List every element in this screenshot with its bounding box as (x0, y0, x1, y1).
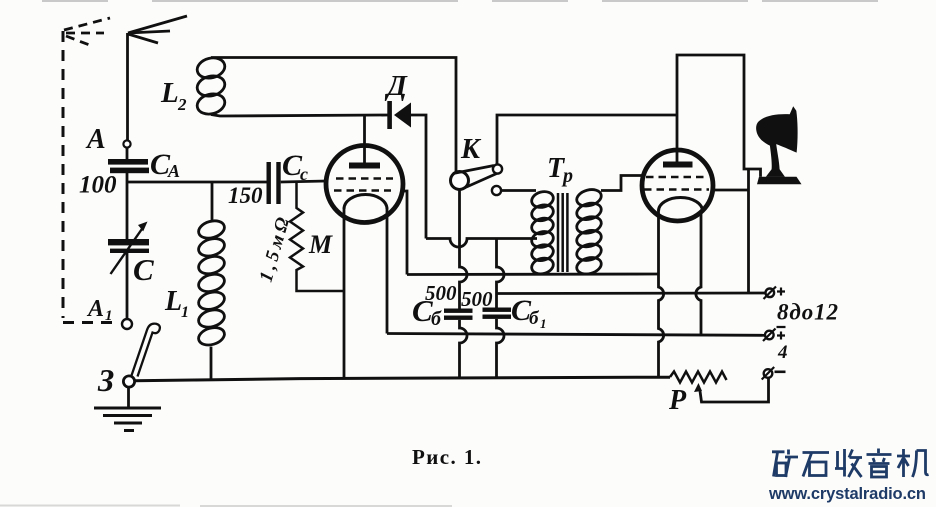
svg-text:Д: Д (384, 70, 408, 102)
U1 filament legs (343, 209, 346, 379)
capacitor CA (108, 159, 149, 173)
svg-text:С: С (412, 293, 433, 328)
wire CA to C (variable) (126, 182, 129, 239)
svg-text:1: 1 (105, 308, 113, 324)
diode D (387, 101, 392, 129)
terminal +4 (765, 331, 774, 340)
svg-text:р: р (561, 165, 573, 187)
svg-text:б: б (431, 308, 442, 330)
coil L1 (197, 182, 227, 380)
capacitor Cb (444, 309, 473, 320)
wire tuned circuit to grid (127, 181, 267, 184)
U2 filament legs (659, 211, 664, 377)
terminal +8..12 (766, 289, 775, 298)
svg-text:М: М (308, 230, 333, 259)
wire U2 right to speaker (713, 189, 749, 192)
rail 293 to terminal (497, 292, 766, 295)
wire detector to transformer tap (with hop) (426, 239, 537, 248)
svg-text:4: 4 (777, 342, 788, 363)
char yin (867, 449, 892, 464)
coil L2 (195, 55, 456, 171)
svg-text:L: L (164, 286, 182, 317)
svg-text:Рис. 1.: Рис. 1. (412, 445, 481, 469)
resistor M (grid leak) (290, 182, 344, 291)
scan artifacts bottom edge (0, 505, 452, 507)
triode U2 (642, 150, 713, 221)
transformer Tr primary (530, 189, 555, 276)
rheostat wiper to terminal minus (700, 378, 769, 402)
rheostat P (670, 372, 727, 383)
transformer core (558, 193, 567, 272)
char kuang (772, 450, 798, 478)
svg-text:А: А (85, 124, 106, 155)
terminal minus (764, 369, 773, 378)
watermark logo (vector CJK) (772, 449, 929, 478)
capacitor Cb1 (483, 308, 512, 319)
svg-text:1: 1 (540, 316, 547, 331)
capacitor CC (267, 162, 281, 204)
svg-text:500: 500 (461, 287, 493, 311)
char ji (897, 449, 929, 477)
svg-text:www.crystalradio.cn: www.crystalradio.cn (768, 485, 926, 503)
svg-text:L: L (160, 77, 179, 109)
antenna (dashed counterpoise) (63, 31, 117, 323)
variable capacitor C (108, 239, 149, 253)
rail 275 (407, 273, 658, 276)
svg-text:С: С (133, 252, 154, 287)
char shi (803, 453, 830, 477)
svg-text:б: б (529, 308, 540, 329)
switch K (451, 172, 469, 190)
speaker horn (757, 177, 802, 184)
bottom rail wire (134, 377, 670, 381)
rail 335 to terminal (387, 334, 765, 336)
svg-text:1: 1 (181, 304, 189, 321)
svg-text:А: А (86, 296, 104, 322)
wire K lower contact to transformer primary (501, 189, 536, 192)
wire C to A1 (126, 253, 129, 319)
wire U1 anode side down to filament rail (401, 191, 407, 275)
anode loop wire (677, 55, 761, 177)
svg-text:8до12: 8до12 (777, 300, 838, 325)
svg-text:с: с (300, 164, 308, 184)
svg-text:З: З (97, 362, 114, 398)
svg-text:100: 100 (79, 172, 117, 199)
svg-text:Р: Р (668, 385, 687, 416)
svg-text:А: А (167, 161, 180, 181)
svg-text:1,5мΩ: 1,5мΩ (256, 215, 294, 284)
char shou (835, 449, 862, 477)
wire K upper contact feed (497, 115, 677, 164)
triode U1 (326, 146, 403, 223)
node A terminal (123, 140, 130, 147)
wire secondary to U2 grid (601, 176, 644, 191)
svg-text:К: К (460, 134, 482, 165)
switch lever (earth switch) (132, 324, 160, 377)
antenna A (solid) (128, 16, 188, 140)
svg-text:2: 2 (177, 95, 187, 114)
svg-text:150: 150 (228, 183, 263, 208)
transformer Tr secondary (575, 187, 603, 277)
scan artifacts top edge (42, 0, 878, 2)
ground (94, 387, 161, 431)
node A1 terminal (122, 319, 132, 329)
wire K pivot down to Cb (hops over 275 rail) (460, 190, 468, 309)
